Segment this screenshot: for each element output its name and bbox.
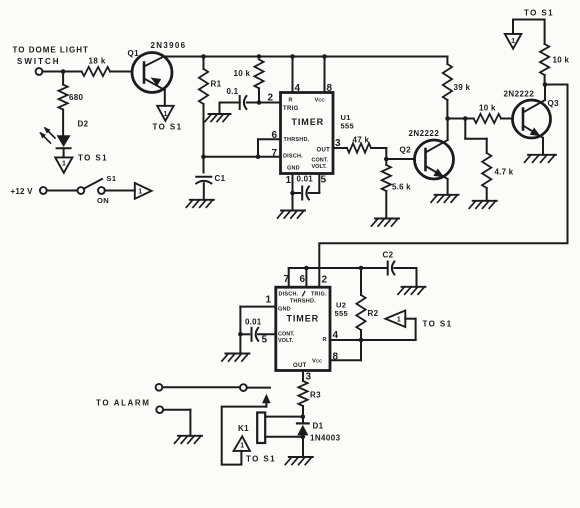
junction: rail-pin8 bbox=[322, 54, 327, 59]
resistor 10k (vertical, top right) bbox=[540, 44, 549, 75]
wire: Q2 emitter to ground bbox=[447, 179, 449, 195]
wire: 47k to Q2 base bbox=[371, 148, 415, 159]
svg-text:TO S1: TO S1 bbox=[153, 123, 183, 132]
transistor Q3 2N2222 (NPN) bbox=[513, 100, 551, 138]
svg-text:555: 555 bbox=[341, 122, 354, 131]
label 4.7 k bbox=[495, 168, 514, 177]
U2 pin 8 wire bbox=[330, 340, 361, 360]
junction: pin6/pin7 bbox=[256, 155, 261, 160]
wire: input terminal to junction bbox=[42, 71, 63, 73]
wire: collector node to 10k bbox=[448, 118, 466, 120]
wire: 10k to pin2 node bbox=[258, 88, 260, 102]
svg-text:CONT.: CONT. bbox=[278, 332, 295, 338]
svg-text:TO S1: TO S1 bbox=[246, 455, 276, 464]
wire: Q1 emitter to S1 flag bbox=[164, 90, 166, 106]
capacitor 0.01 (U1) bbox=[293, 187, 320, 200]
U1 internal label VOLT. bbox=[312, 164, 328, 170]
wire: Q3 collector to U2 trigger (right edge bus) bbox=[319, 85, 567, 288]
wire: R1 to C1 bbox=[203, 104, 205, 173]
op-amp/timer U2 555 box bbox=[276, 287, 330, 370]
label ON bbox=[97, 196, 109, 205]
ground (alarm return) bbox=[175, 436, 203, 444]
svg-text:C2: C2 bbox=[383, 251, 394, 260]
resistor 4.7k (vertical) bbox=[482, 153, 491, 188]
wire: 39k to collector node bbox=[446, 100, 448, 119]
svg-text:R1: R1 bbox=[211, 80, 222, 89]
wire: +12V to switch pole bbox=[47, 190, 78, 192]
terminal: +12V bbox=[40, 187, 47, 194]
wire: 10k bottom to Q3 collector node bbox=[544, 75, 546, 85]
label 555 (U2) bbox=[335, 309, 348, 318]
junction: Q2 collector/39k bbox=[445, 116, 450, 121]
U2 internal label Vcc bbox=[312, 359, 323, 365]
svg-text:6: 6 bbox=[272, 130, 278, 141]
label 555 (U1) bbox=[341, 122, 354, 131]
svg-text:0.01: 0.01 bbox=[297, 175, 314, 184]
U1 pin 3 wire bbox=[333, 147, 347, 149]
U1 internal label TIMER bbox=[292, 117, 325, 127]
label K1 bbox=[238, 424, 249, 433]
U1 pin 7 wire bbox=[204, 156, 281, 158]
svg-text:GND: GND bbox=[287, 166, 300, 172]
capacitor 0.1 bbox=[240, 96, 259, 109]
ground (Q3 emitter) bbox=[525, 155, 557, 163]
wire: 680 to D2 bbox=[62, 110, 64, 136]
wire: alarm contact B to ground bbox=[163, 410, 190, 436]
U2 internal label DISCH. bbox=[279, 292, 299, 298]
net flag S1 (below Q1) bbox=[157, 106, 173, 121]
label 5.6 k bbox=[392, 183, 411, 192]
wire: pins 6-7 to R2/C2 rail bbox=[289, 267, 388, 269]
svg-text:D2: D2 bbox=[78, 120, 89, 129]
junction: R1/C1/pin7 node bbox=[201, 155, 206, 160]
junction: U2 pin1/0.01/ground bbox=[238, 332, 243, 337]
svg-text:1: 1 bbox=[163, 111, 167, 118]
svg-text:2N3906: 2N3906 bbox=[151, 41, 187, 50]
svg-text:5.6 k: 5.6 k bbox=[392, 183, 411, 192]
svg-text:TO S1: TO S1 bbox=[524, 9, 554, 18]
label 10 k (top right) bbox=[553, 56, 570, 65]
junction: input node bbox=[61, 69, 66, 74]
LED D2 bbox=[40, 127, 71, 148]
svg-text:TIMER: TIMER bbox=[287, 314, 320, 324]
resistor 39k (vertical) bbox=[443, 57, 452, 101]
ground (below C2) bbox=[398, 287, 426, 295]
wire: Q3 emitter to ground bbox=[542, 138, 544, 155]
U2 internal label GND bbox=[278, 307, 291, 313]
label D1 bbox=[313, 422, 324, 431]
U2 pin 6 wire bbox=[305, 268, 307, 287]
U1 pin 8 label bbox=[327, 83, 333, 94]
label 39 k bbox=[454, 83, 471, 92]
svg-text:SWITCH: SWITCH bbox=[17, 57, 61, 66]
label S1 bbox=[107, 174, 117, 183]
label 10 k (U1 trigger) bbox=[234, 69, 251, 78]
junction: U1 pin1/0.01/ground bbox=[290, 191, 295, 196]
wire: pin4 to S1 flag bbox=[405, 319, 415, 340]
terminal: dome light switch input bbox=[36, 68, 43, 75]
U2 internal label TIMER bbox=[287, 314, 320, 324]
resistor 10k (horizontal, Q3 base) bbox=[465, 114, 501, 123]
junction: 10k/4.7k node bbox=[463, 116, 468, 121]
svg-text:TIMER: TIMER bbox=[292, 117, 325, 127]
label U1 bbox=[341, 113, 351, 122]
label TO S1 (U2 reset) bbox=[423, 320, 453, 329]
svg-text:TRIG: TRIG bbox=[283, 106, 299, 112]
svg-text:Q3: Q3 bbox=[548, 99, 560, 108]
wire: C1 to ground bbox=[203, 183, 205, 200]
label 2N2222 (Q2) bbox=[409, 129, 440, 138]
U1 pin 2 label bbox=[268, 93, 274, 104]
label Q2 bbox=[400, 146, 412, 155]
ground (below U1 pin 1) bbox=[278, 211, 306, 219]
svg-text:K1: K1 bbox=[238, 424, 249, 433]
wire: U1 pin1 to ground bbox=[292, 193, 294, 211]
switch S1 pole A bbox=[78, 187, 85, 194]
svg-text:Q2: Q2 bbox=[400, 146, 412, 155]
node: TO DOME LIGHT SWITCH label bbox=[13, 46, 89, 67]
U2 pin 3 label bbox=[306, 372, 312, 383]
switch S1 arm bbox=[84, 179, 102, 189]
svg-text:10 k: 10 k bbox=[479, 104, 496, 113]
U1 pin 8 wire bbox=[324, 57, 326, 93]
label TO ALARM bbox=[96, 399, 151, 408]
ground (below 0.1 cap) bbox=[205, 114, 231, 122]
wire: Q3 collector to 10k/right bus bbox=[544, 85, 546, 101]
label TO S1 (relay) bbox=[246, 455, 276, 464]
svg-text:1: 1 bbox=[62, 161, 66, 168]
resistor R3 (vertical) bbox=[298, 381, 307, 406]
label 0.1 bbox=[227, 87, 239, 96]
wire: contact to S1 flag (L path) bbox=[222, 407, 267, 465]
U2 pin 3 wire bbox=[302, 371, 304, 382]
junction: R2/pin4/pin8 bbox=[359, 338, 364, 343]
wire: 0.1 cap to ground bbox=[220, 103, 240, 115]
svg-text:R2: R2 bbox=[368, 309, 379, 318]
capacitor C1 bbox=[196, 177, 211, 184]
svg-text:TO S1: TO S1 bbox=[78, 154, 108, 163]
svg-text:VOLT.: VOLT. bbox=[312, 164, 328, 170]
svg-text:39 k: 39 k bbox=[454, 83, 471, 92]
wire: D1 anode node bbox=[302, 435, 304, 457]
U2 pin 4 label bbox=[333, 330, 339, 341]
U2 pin 7 wire bbox=[288, 268, 290, 287]
U2 pin 5 label bbox=[262, 335, 268, 346]
ground (Q2 emitter) bbox=[431, 195, 459, 203]
svg-text:1: 1 bbox=[138, 189, 142, 196]
wire: 10k top to S1 flag bbox=[513, 20, 545, 45]
svg-text:1: 1 bbox=[240, 443, 244, 450]
svg-text:TO ALARM: TO ALARM bbox=[96, 399, 151, 408]
svg-text:10 k: 10 k bbox=[553, 56, 570, 65]
label TO S1 (below D2) bbox=[78, 154, 108, 163]
junction: rail-R1 bbox=[201, 54, 206, 59]
svg-text:8: 8 bbox=[327, 83, 333, 94]
svg-text:2N2222: 2N2222 bbox=[409, 129, 440, 138]
ground (U2 bypass) bbox=[222, 354, 250, 362]
label 47k bbox=[353, 136, 370, 145]
svg-text:1: 1 bbox=[286, 175, 292, 186]
label Q3 bbox=[548, 99, 560, 108]
U1 pin 6 wire bbox=[258, 139, 281, 157]
power +12 V label bbox=[11, 187, 34, 196]
svg-text:VOLT.: VOLT. bbox=[278, 338, 294, 344]
U2 internal pin6 arrow bbox=[303, 292, 305, 296]
svg-text:18 k: 18 k bbox=[89, 57, 106, 66]
junction: rail-pin4 bbox=[290, 54, 295, 59]
U1 pin 1 label bbox=[286, 175, 292, 186]
svg-text:3: 3 bbox=[306, 372, 312, 383]
resistor R2 (vertical) bbox=[356, 268, 365, 340]
U1 pin 4 wire bbox=[292, 57, 294, 93]
label 0.01 (U2) bbox=[245, 318, 262, 327]
wire: C2 to ground bbox=[394, 268, 416, 287]
wire: Q2 collector to 39k node bbox=[447, 119, 449, 141]
U1 internal label CONT. bbox=[312, 158, 329, 164]
svg-text:47 k: 47 k bbox=[353, 136, 370, 145]
label TO S1 (top right) bbox=[524, 9, 554, 18]
svg-text:8: 8 bbox=[333, 352, 339, 363]
U2 pin 1 wire bbox=[240, 307, 275, 335]
junction: R3/K1 top/D1 cathode bbox=[301, 414, 306, 419]
junction: pin2 node bbox=[257, 100, 262, 105]
svg-text:5: 5 bbox=[321, 175, 327, 186]
U1 pin 4 label bbox=[295, 83, 301, 94]
svg-text:Q1: Q1 bbox=[128, 49, 140, 58]
wire: top rail (Q1 collector to 39k) bbox=[164, 56, 448, 58]
U1 pin 5 wire bbox=[318, 174, 320, 194]
wire: alarm contact to relay contact bbox=[162, 386, 240, 388]
svg-text:+12 V: +12 V bbox=[11, 187, 34, 196]
label R2 bbox=[368, 309, 379, 318]
wire: 5.6k to ground bbox=[385, 191, 387, 219]
U2 internal label R bbox=[323, 337, 327, 343]
U2 pin 6 label bbox=[300, 274, 306, 285]
label Q1 bbox=[128, 49, 140, 58]
relay K1 coil bbox=[257, 413, 265, 444]
junction: U2 pin 6 top bbox=[304, 266, 309, 271]
svg-text:R3: R3 bbox=[310, 391, 321, 400]
net flag S1 (U2 reset, pointing left) bbox=[385, 311, 405, 328]
label C1 bbox=[215, 174, 226, 183]
svg-text:OUT: OUT bbox=[317, 148, 331, 154]
svg-text:1: 1 bbox=[397, 317, 401, 324]
U2 internal label CONT. bbox=[278, 332, 295, 338]
junction: R2 top bbox=[359, 266, 364, 271]
wire: K1 bottom to D1 anode node bbox=[265, 436, 303, 438]
svg-text:4: 4 bbox=[295, 83, 301, 94]
net flag S1 (relay contact, pointing up) bbox=[234, 436, 250, 451]
label 680 bbox=[69, 93, 83, 102]
svg-text:D1: D1 bbox=[313, 422, 324, 431]
transistor Q1 2N3906 (PNP) bbox=[132, 53, 172, 93]
wire: pin2 node to U1 pin 2 bbox=[259, 102, 281, 104]
wire: D2 cathode to S1 flag bbox=[63, 148, 65, 157]
svg-text:DISCH.: DISCH. bbox=[283, 154, 303, 160]
U1 pin 7 label bbox=[272, 148, 278, 159]
svg-text:THRSHD.: THRSHD. bbox=[290, 299, 316, 305]
svg-text:7: 7 bbox=[272, 148, 278, 159]
svg-text:4.7 k: 4.7 k bbox=[495, 168, 514, 177]
U2 pin 1 label bbox=[266, 295, 272, 306]
net flag S1 (top right, pointing down) bbox=[505, 34, 522, 49]
svg-text:DISCH.: DISCH. bbox=[279, 292, 299, 298]
svg-text:680: 680 bbox=[69, 93, 83, 102]
resistor 5.6k (vertical) bbox=[382, 159, 391, 191]
svg-text:2: 2 bbox=[322, 275, 328, 286]
svg-text:555: 555 bbox=[335, 309, 348, 318]
label C2 bbox=[383, 251, 394, 260]
wire: 4.7k branch bbox=[465, 119, 486, 154]
svg-text:S1: S1 bbox=[107, 174, 117, 183]
label R3 bbox=[310, 391, 321, 400]
wire: 4.7k to ground bbox=[486, 188, 488, 201]
relay K1 contact arrow bbox=[262, 394, 271, 407]
wire: 18k to Q1 base bbox=[110, 71, 132, 73]
svg-text:GND: GND bbox=[278, 307, 291, 313]
resistor 47k (horizontal) bbox=[347, 143, 371, 152]
ground (below C1) bbox=[186, 200, 214, 208]
svg-text:TO S1: TO S1 bbox=[423, 320, 453, 329]
label TO S1 (below Q1) bbox=[153, 123, 183, 132]
transistor Q2 2N2222 (NPN) bbox=[415, 140, 454, 179]
svg-text:TO DOME LIGHT: TO DOME LIGHT bbox=[13, 46, 89, 55]
svg-text:THRSHD.: THRSHD. bbox=[284, 137, 310, 143]
switch S1 pole B bbox=[98, 187, 105, 194]
label U2 bbox=[336, 301, 346, 310]
resistor R1 (vertical) bbox=[199, 57, 208, 105]
terminal: relay contact fixed bbox=[240, 384, 247, 391]
svg-text:7: 7 bbox=[284, 274, 290, 285]
wire: junction to R 18k bbox=[63, 71, 82, 73]
label 2N3906 bbox=[151, 41, 187, 50]
wire: contact to arrow bbox=[247, 387, 270, 389]
terminal: alarm contact A bbox=[156, 384, 163, 391]
ground (below D1) bbox=[285, 457, 313, 465]
U1 internal label R bbox=[289, 98, 293, 104]
wire: 10k to Q3 base bbox=[501, 118, 513, 120]
ground (below 4.7k) bbox=[469, 201, 497, 209]
resistor 10k (vertical, U1 trigger) bbox=[254, 60, 263, 89]
svg-text:5: 5 bbox=[262, 335, 268, 346]
U1 pin 3 label bbox=[335, 138, 341, 149]
U1 pin 1 wire bbox=[292, 174, 294, 194]
svg-text:1N4003: 1N4003 bbox=[310, 434, 341, 443]
U2 pin 7 label bbox=[284, 274, 290, 285]
label R1 bbox=[211, 80, 222, 89]
junction: D1 anode/K1 bottom bbox=[301, 435, 306, 440]
svg-text:0.01: 0.01 bbox=[245, 318, 262, 327]
U1 internal label Vcc bbox=[315, 98, 326, 104]
capacitor C2 bbox=[388, 262, 395, 275]
svg-text:TRIG.: TRIG. bbox=[311, 292, 327, 298]
svg-text:ON: ON bbox=[97, 196, 109, 205]
U1 internal label TRIG bbox=[283, 106, 299, 112]
U1 internal label DISCH. bbox=[283, 154, 303, 160]
label 10 k (Q3 base) bbox=[479, 104, 496, 113]
svg-text:1: 1 bbox=[511, 38, 515, 45]
wire: U2 pin1 to ground bbox=[239, 334, 241, 353]
svg-text:3: 3 bbox=[335, 138, 341, 149]
U2 pin 4 wire bbox=[330, 339, 416, 341]
U2 pin 8 label bbox=[333, 352, 339, 363]
junction: rail-10k bbox=[257, 54, 262, 59]
svg-text:2: 2 bbox=[268, 93, 274, 104]
junction: Q2 base / 5.6k bbox=[384, 157, 389, 162]
svg-text:1: 1 bbox=[266, 295, 272, 306]
svg-text:2N2222: 2N2222 bbox=[504, 90, 535, 99]
diode D1 1N4003 bbox=[297, 423, 309, 435]
wire: R3 to D1 bbox=[302, 406, 304, 423]
label 0.01 (U1) bbox=[297, 175, 314, 184]
wire: switch to S1 flag bbox=[105, 190, 135, 192]
U2 internal label THRSHD. bbox=[290, 299, 316, 305]
capacitor 0.01 (U2) bbox=[240, 328, 275, 341]
svg-text:10 k: 10 k bbox=[234, 69, 251, 78]
svg-text:OUT: OUT bbox=[293, 363, 307, 369]
U2 internal label TRIG. bbox=[311, 292, 327, 298]
U1 internal label OUT bbox=[317, 148, 331, 154]
svg-text:C1: C1 bbox=[215, 174, 226, 183]
U1 pin 6 label bbox=[272, 130, 278, 141]
junction: Q3 collector node bbox=[543, 82, 548, 87]
resistor 18k (horizontal) bbox=[82, 67, 110, 76]
svg-text:R: R bbox=[323, 337, 327, 343]
op-amp/timer U1 555 box bbox=[281, 93, 334, 174]
U1 pin 5 label bbox=[321, 175, 327, 186]
wire: K1 top to D1 cathode node bbox=[265, 416, 303, 418]
net flag S1 (from switch, pointing right) bbox=[135, 183, 152, 199]
svg-text:R: R bbox=[289, 98, 293, 104]
U1 internal label THRSHD. bbox=[284, 137, 310, 143]
U2 internal label VOLT. bbox=[278, 338, 294, 344]
svg-text:6: 6 bbox=[300, 274, 306, 285]
label 2N2222 (Q3) bbox=[504, 90, 535, 99]
U1 internal label GND bbox=[287, 166, 300, 172]
svg-text:4: 4 bbox=[333, 330, 339, 341]
svg-text:CONT.: CONT. bbox=[312, 158, 329, 164]
net flag S1 (below D2) bbox=[55, 157, 72, 172]
U2 internal label OUT bbox=[293, 363, 307, 369]
svg-text:0.1: 0.1 bbox=[227, 87, 239, 96]
U2 pin 2 label bbox=[322, 275, 328, 286]
resistor 680 (vertical) bbox=[59, 72, 68, 110]
terminal: alarm contact B bbox=[156, 406, 163, 413]
label 18k bbox=[89, 57, 106, 66]
label 1N4003 bbox=[310, 434, 341, 443]
ground (below 5.6k) bbox=[372, 219, 400, 227]
label D2 bbox=[78, 120, 89, 129]
